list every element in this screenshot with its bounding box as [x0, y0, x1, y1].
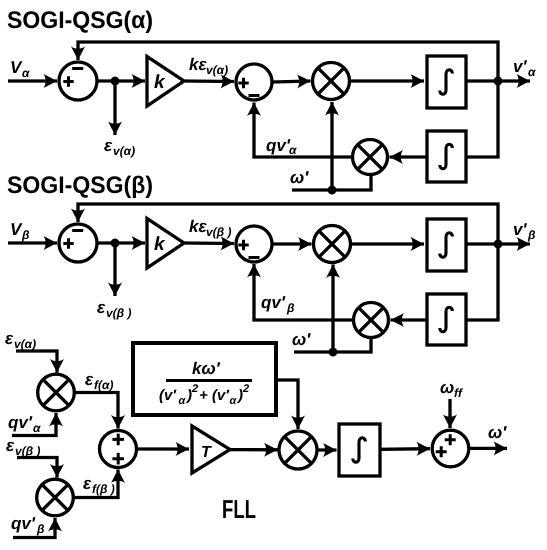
wire M5 to integrator I5: [319, 448, 337, 451]
wire qv_alpha to S2a: [254, 103, 353, 158]
label eps_v(alpha) FLL input: [5, 335, 36, 351]
wire feedback top beta: [78, 204, 498, 244]
node omega_prime alpha: [328, 186, 337, 195]
multiplier M3: [38, 374, 75, 411]
wire input V_alpha: [8, 79, 57, 82]
wire gain T1 to M5: [230, 448, 278, 451]
label eps_f(alpha): [85, 376, 113, 392]
label v_beta output: [514, 223, 535, 241]
wire omega_ff to S4: [448, 399, 451, 428]
wire S2b to multiplier M1b: [273, 242, 312, 245]
wire S3 to gain T1: [138, 447, 189, 450]
wire qv_alpha to M3: [12, 413, 56, 436]
wire omega_prime to M1a: [330, 102, 333, 190]
summing junction S1b: [59, 224, 97, 262]
wire M1b to integrator I1b: [352, 242, 424, 245]
label qv_alpha: [267, 139, 297, 154]
summing junction S2a: [236, 64, 272, 100]
node v_alpha: [494, 77, 503, 86]
integrator I1a: [427, 56, 466, 108]
wire M3 to S3: [75, 393, 119, 429]
label omega_prime beta: [293, 333, 311, 345]
label v_alpha output: [514, 60, 536, 76]
wire v_alpha to integrator I2a: [467, 81, 498, 157]
title SOGI-QSG(alpha): [8, 11, 152, 33]
label qv_beta: [262, 296, 295, 314]
wire M4 to S3: [74, 470, 119, 498]
wire S1a to gain K1a: [97, 79, 145, 82]
integrator I2b: [427, 294, 466, 345]
label qv_alpha FLL input: [9, 416, 41, 432]
node omega_prime beta: [329, 348, 338, 357]
integrator I1b: [427, 219, 466, 271]
wire omega_prime alpha: [292, 176, 371, 190]
wire I5 to S4: [380, 447, 430, 451]
node N1b error beta: [111, 239, 120, 248]
wire k_omega box to M5: [276, 380, 298, 429]
node N1a error alpha: [111, 77, 120, 86]
wire I2a to multiplier M2a: [390, 155, 428, 158]
wire feedback top alpha: [78, 42, 498, 81]
wire qv_beta to M4: [13, 518, 55, 538]
multiplier M2b: [354, 303, 389, 338]
wire output v_alpha: [498, 79, 530, 82]
label eps_v(alpha): [104, 142, 135, 158]
integrator I2a: [427, 131, 466, 182]
multiplier M1b: [314, 226, 351, 263]
summing junction S1a: [59, 62, 97, 100]
wire M1a to integrator I1a: [351, 79, 424, 82]
wire omega_prime beta: [294, 339, 371, 352]
summing junction S3: [100, 431, 137, 468]
wire S2a to multiplier M1a: [273, 81, 311, 82]
gain normalization box k_omega: [133, 343, 276, 415]
summing junction S2b: [236, 226, 272, 262]
wire error beta down: [113, 243, 116, 296]
label k eps_v(beta): [189, 220, 231, 239]
gain K1a: [147, 57, 184, 107]
label V_beta: [11, 223, 29, 241]
label FLL: [223, 500, 255, 518]
wire eps_v(beta) to M4: [17, 458, 57, 478]
label eps_v(beta) FLL input: [6, 442, 40, 458]
wire eps_v(alpha) to M3: [16, 351, 57, 373]
wire output v_beta: [498, 242, 530, 245]
node v_beta: [494, 240, 503, 249]
label eps_v(beta): [97, 304, 131, 320]
wire output omega_prime: [470, 447, 507, 450]
label V_alpha: [11, 61, 30, 77]
wire S1b to gain K1b: [97, 241, 145, 244]
wire v_beta to integrator I2b: [467, 244, 498, 320]
wire qv_beta to S2b: [254, 264, 354, 320]
multiplier M4: [37, 479, 74, 516]
wire I2b to multiplier M2b: [391, 318, 428, 321]
wire input V_beta: [8, 241, 57, 244]
multiplier M5: [279, 431, 317, 469]
label omega_prime output: [489, 426, 507, 438]
title SOGI-QSG(beta): [8, 176, 152, 198]
wire error alpha down: [113, 81, 116, 135]
label k eps_v(alpha): [189, 58, 228, 77]
wire gain K1b to S2b: [184, 241, 234, 245]
integrator I5: [339, 424, 380, 476]
label omega_prime alpha: [291, 171, 309, 183]
summing junction S4: [432, 430, 469, 467]
wire I1b to node v_beta: [466, 242, 498, 245]
gain K1b: [147, 219, 184, 269]
wire I1a to node v_alpha: [466, 79, 498, 82]
wire omega_prime to M1b: [331, 265, 334, 353]
wire gain K1a to S2a: [184, 79, 234, 83]
gain T1: [192, 426, 230, 473]
multiplier M1a: [313, 63, 350, 100]
label omega_ff: [441, 384, 464, 397]
label qv_beta FLL input: [12, 517, 45, 535]
label eps_f(beta): [83, 480, 114, 496]
multiplier M2a: [353, 140, 388, 175]
